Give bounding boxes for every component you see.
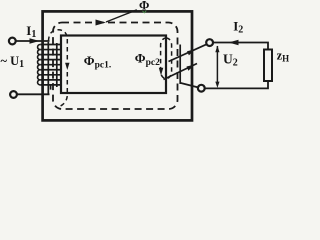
load impedance zH	[264, 50, 272, 82]
core outer outline	[43, 11, 192, 120]
leakage flux 1 arrowhead	[65, 63, 69, 70]
scan artifact mark	[143, 11, 147, 13]
svg-text:zH: zH	[277, 48, 290, 63]
primary terminal bottom	[10, 91, 17, 98]
current arrow I2	[229, 40, 239, 45]
svg-text:I1: I1	[26, 23, 36, 40]
svg-text:Φpc2: Φpc2	[135, 50, 160, 68]
flux label leader line	[106, 10, 137, 22]
current arrow I1	[30, 38, 40, 43]
main flux path (dashed loop)	[53, 23, 178, 110]
primary terminal top	[9, 38, 16, 45]
secondary terminal top	[206, 39, 213, 46]
secondary terminal bottom	[198, 85, 205, 92]
svg-text:I2: I2	[233, 18, 243, 35]
secondary bottom lead to terminal	[181, 83, 199, 88]
wire: bottom-right	[205, 81, 268, 88]
svg-text:Φpc1.: Φpc1.	[84, 53, 111, 71]
leakage flux loop 2 (dashed, around secondary)	[161, 38, 172, 79]
primary winding W1 coil	[38, 42, 62, 94]
secondary winding conductor	[179, 45, 181, 85]
wire: bottom-left lead	[17, 93, 50, 95]
svg-text:U2: U2	[223, 52, 238, 69]
leakage flux loop 1 (dashed, around primary)	[49, 30, 68, 107]
leakage flux 2 arrowhead	[159, 68, 164, 76]
lower lead arrowhead	[187, 65, 195, 71]
svg-text:~ U1: ~ U1	[1, 54, 25, 70]
wire: top-left lead	[16, 40, 50, 42]
secondary winding upper lead	[169, 44, 207, 61]
main flux arrowhead	[96, 20, 107, 26]
upper lead arrowhead	[187, 49, 195, 55]
svg-text:Φ: Φ	[139, 0, 149, 13]
core window inner outline	[61, 36, 166, 94]
wire: top-right	[213, 43, 268, 50]
secondary winding lower lead	[164, 64, 198, 80]
voltage arrow U2 (double headed)	[215, 46, 219, 88]
